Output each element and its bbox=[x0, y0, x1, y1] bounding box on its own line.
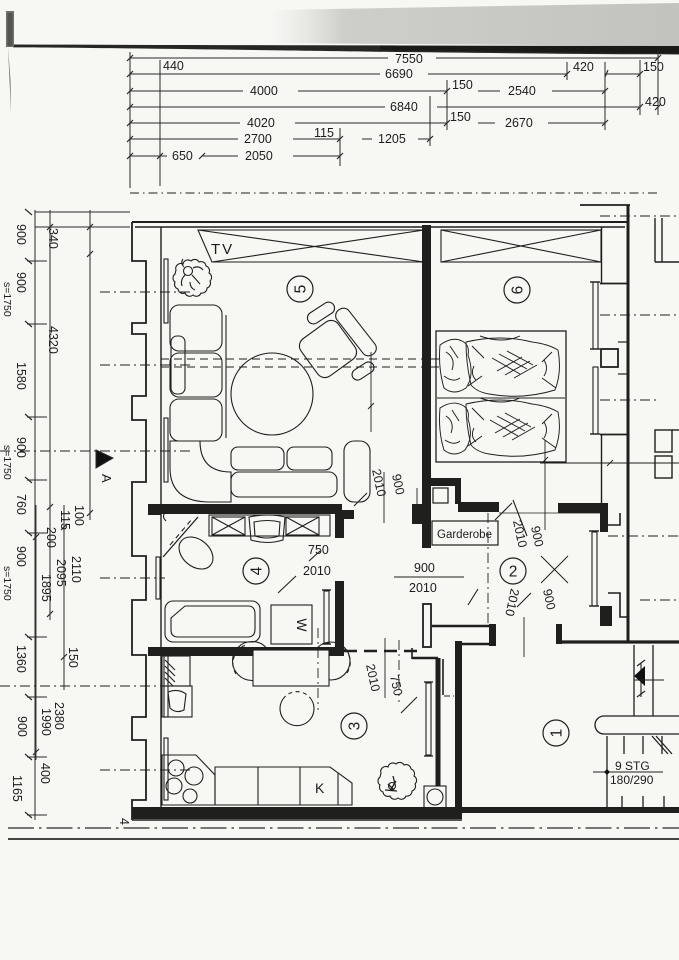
svg-text:750: 750 bbox=[308, 543, 329, 557]
svg-text:150: 150 bbox=[452, 78, 473, 92]
svg-text:A: A bbox=[99, 474, 114, 483]
svg-text:1580: 1580 bbox=[14, 362, 28, 390]
svg-text:4000: 4000 bbox=[250, 84, 278, 98]
svg-text:150: 150 bbox=[643, 60, 664, 74]
svg-text:s=1750: s=1750 bbox=[1, 282, 13, 317]
svg-text:6: 6 bbox=[510, 286, 527, 295]
svg-text:900: 900 bbox=[14, 224, 28, 245]
svg-text:150: 150 bbox=[66, 647, 80, 668]
svg-text:2700: 2700 bbox=[244, 132, 272, 146]
svg-text:900: 900 bbox=[15, 716, 29, 737]
svg-text:Garderobe: Garderobe bbox=[437, 529, 492, 541]
svg-text:900: 900 bbox=[14, 437, 28, 458]
svg-text:2095: 2095 bbox=[54, 559, 68, 587]
svg-text:420: 420 bbox=[573, 60, 594, 74]
svg-text:5: 5 bbox=[293, 285, 310, 294]
svg-text:1165: 1165 bbox=[10, 775, 24, 802]
svg-text:6690: 6690 bbox=[385, 67, 413, 81]
svg-text:1895: 1895 bbox=[39, 574, 53, 602]
svg-text:s=1750: s=1750 bbox=[1, 566, 13, 601]
svg-text:2050: 2050 bbox=[245, 149, 273, 163]
svg-text:150: 150 bbox=[450, 110, 471, 124]
svg-text:2010: 2010 bbox=[303, 564, 331, 578]
svg-text:1990: 1990 bbox=[39, 708, 53, 736]
svg-text:180/290: 180/290 bbox=[610, 773, 654, 787]
svg-text:4: 4 bbox=[117, 818, 131, 825]
svg-text:420: 420 bbox=[645, 95, 666, 109]
svg-text:K: K bbox=[315, 780, 325, 796]
svg-text:2380: 2380 bbox=[52, 702, 66, 730]
svg-text:650: 650 bbox=[172, 149, 193, 163]
svg-text:115: 115 bbox=[314, 126, 334, 140]
svg-text:1205: 1205 bbox=[378, 132, 406, 146]
svg-text:100: 100 bbox=[72, 505, 86, 526]
svg-text:4320: 4320 bbox=[46, 326, 60, 354]
svg-text:900: 900 bbox=[14, 272, 28, 293]
svg-text:760: 760 bbox=[14, 494, 28, 515]
svg-text:1360: 1360 bbox=[14, 645, 28, 673]
svg-text:2: 2 bbox=[509, 564, 518, 581]
svg-text:s=1750: s=1750 bbox=[1, 445, 13, 480]
svg-text:200: 200 bbox=[44, 527, 58, 548]
svg-text:115: 115 bbox=[58, 510, 72, 530]
svg-text:2110: 2110 bbox=[69, 556, 83, 583]
svg-text:TV: TV bbox=[211, 241, 234, 258]
svg-text:400: 400 bbox=[38, 763, 52, 784]
svg-text:1: 1 bbox=[549, 729, 566, 738]
svg-text:4: 4 bbox=[249, 566, 266, 575]
svg-text:900: 900 bbox=[14, 546, 28, 567]
svg-text:7550: 7550 bbox=[395, 52, 423, 66]
svg-text:W: W bbox=[294, 618, 310, 632]
svg-text:340: 340 bbox=[46, 228, 60, 249]
svg-text:2540: 2540 bbox=[508, 84, 536, 98]
svg-text:4020: 4020 bbox=[247, 116, 275, 130]
svg-text:3: 3 bbox=[347, 722, 364, 731]
svg-text:2010: 2010 bbox=[409, 581, 437, 595]
svg-text:6840: 6840 bbox=[390, 100, 418, 114]
svg-text:9 STG: 9 STG bbox=[615, 759, 650, 773]
svg-text:2670: 2670 bbox=[505, 116, 533, 130]
svg-text:900: 900 bbox=[414, 561, 435, 575]
svg-text:440: 440 bbox=[163, 59, 184, 73]
